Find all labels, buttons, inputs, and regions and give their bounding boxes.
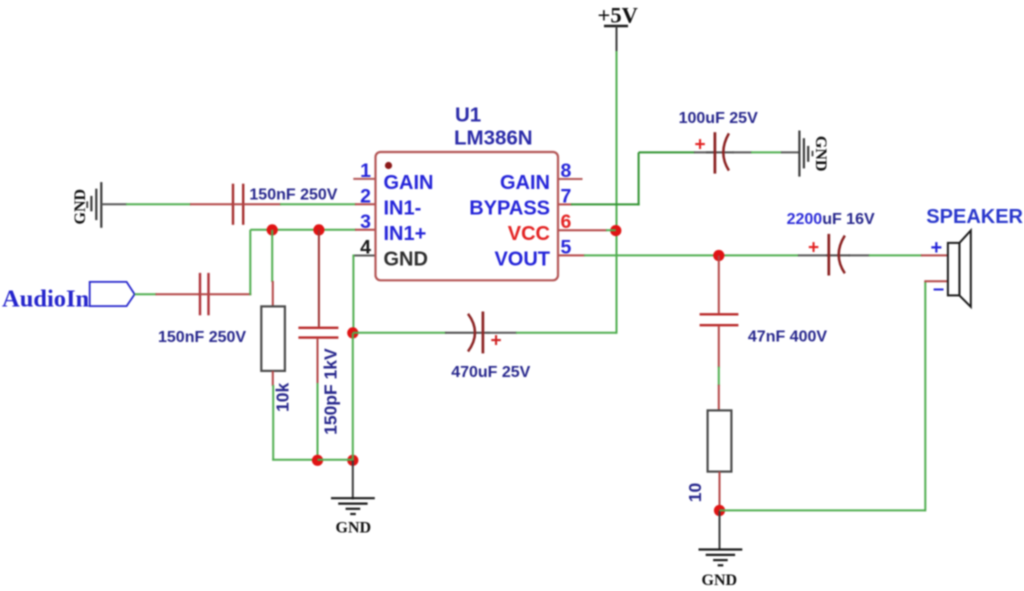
svg-text:6: 6 xyxy=(561,211,572,233)
svg-text:IN1+: IN1+ xyxy=(384,223,427,245)
wire: pin5 VOUT to speaker xyxy=(558,254,948,256)
wire: C 150nF bottom to pin3 node xyxy=(198,230,251,295)
svg-text:4: 4 xyxy=(360,237,371,259)
svg-text:GND: GND xyxy=(812,136,829,172)
wire: GND stem (bottom-left) xyxy=(352,461,354,500)
svg-text:GND: GND xyxy=(336,520,372,537)
capacitor C 470uF 25V (polarized) xyxy=(445,312,502,354)
wire: 470uF to +5V riser xyxy=(486,50,616,334)
svg-text:3: 3 xyxy=(360,211,371,233)
speaker LS1 xyxy=(948,230,971,306)
svg-text:47nF 400V: 47nF 400V xyxy=(748,329,827,346)
svg-text:150nF 250V: 150nF 250V xyxy=(158,329,246,346)
wire: 470uF row from pin4 node xyxy=(353,332,446,334)
wire: GND to C 150nF (pin2 net) xyxy=(101,203,232,205)
wire: ground node to GND stem (bottom-right) xyxy=(719,511,721,550)
wire: R 10k to ground row xyxy=(272,371,318,461)
svg-text:10k: 10k xyxy=(273,383,293,412)
pin 1 stub xyxy=(353,178,375,180)
svg-text:1: 1 xyxy=(360,160,371,182)
svg-text:2200uF 16V: 2200uF 16V xyxy=(787,211,875,228)
capacitor C 2200uF 16V (polarized) xyxy=(808,234,850,276)
capacitor C 100uF 25V (polarized) xyxy=(695,132,735,173)
resistor R 10k xyxy=(261,306,285,371)
node: junction dot R10/speaker return xyxy=(714,505,725,516)
wire: pin6 VCC to +5V riser xyxy=(558,229,616,231)
node: junction dot pin6/+5V xyxy=(610,225,621,236)
ground (bottom-left) xyxy=(331,498,375,514)
svg-text:BYPASS: BYPASS xyxy=(469,197,550,219)
svg-text:2: 2 xyxy=(360,185,371,207)
node: junction dot ground row / GND stem xyxy=(347,455,358,466)
svg-text:LM386N: LM386N xyxy=(454,126,533,149)
svg-text:5: 5 xyxy=(561,236,572,258)
svg-text:–: – xyxy=(933,278,944,300)
wire: C 150nF to U1 pin 2 xyxy=(231,203,376,205)
svg-text:+: + xyxy=(808,238,819,259)
svg-text:150pF 1kV: 150pF 1kV xyxy=(321,348,341,435)
wire: pin7 BYPASS to 100uF xyxy=(558,152,714,205)
ground (right, rotated flag near 100uF) xyxy=(799,131,812,177)
power +5V bar symbol xyxy=(604,26,628,51)
capacitor C 47nF 400V xyxy=(700,314,739,325)
capacitor C 150pF 1kV xyxy=(298,328,338,338)
port AudioIn connector xyxy=(90,282,135,306)
svg-text:100uF 25V: 100uF 25V xyxy=(679,110,758,127)
wire: R 10 to ground node xyxy=(719,472,721,511)
node: junction dot pin3/150pF xyxy=(313,224,324,235)
capacitor C 150nF 250V (bottom, AudioIn coupling) xyxy=(200,273,209,315)
node: junction dot pin3/10k xyxy=(267,224,278,235)
svg-text:+: + xyxy=(931,237,943,259)
wire: speaker return (minus) xyxy=(720,281,948,511)
wire: pin4 to vertical ground branch xyxy=(353,255,375,334)
node: junction dot pin4/470uF xyxy=(347,327,358,338)
svg-text:+: + xyxy=(695,135,706,156)
wire: node to R 10k xyxy=(271,230,274,307)
svg-text:GND: GND xyxy=(72,189,89,225)
svg-text:150nF 250V: 150nF 250V xyxy=(249,186,337,203)
wire: 47nF branch down from VOUT node xyxy=(718,256,720,314)
wire: pin3 node down to C 150pF xyxy=(318,230,320,327)
svg-text:10: 10 xyxy=(685,482,705,502)
svg-text:+5V: +5V xyxy=(598,3,638,28)
node: junction dot ground row / 150pF xyxy=(312,455,323,466)
svg-text:IN1-: IN1- xyxy=(384,197,422,219)
wire: 47nF to R 10 xyxy=(718,326,720,410)
svg-text:GAIN: GAIN xyxy=(384,172,434,194)
pin 8 stub xyxy=(558,178,583,180)
svg-text:AudioIn: AudioIn xyxy=(2,286,90,313)
op-amp U1 body xyxy=(376,152,559,280)
svg-text:GAIN: GAIN xyxy=(500,172,550,194)
svg-text:SPEAKER: SPEAKER xyxy=(926,206,1023,228)
svg-text:7: 7 xyxy=(561,185,572,207)
wire: pin3 row xyxy=(250,229,375,231)
svg-text:GND: GND xyxy=(702,572,738,589)
svg-text:8: 8 xyxy=(561,160,572,182)
svg-text:VCC: VCC xyxy=(508,223,550,245)
svg-text:VOUT: VOUT xyxy=(494,249,550,271)
wire: AudioIn to C 150nF (bottom) xyxy=(135,293,201,295)
capacitor C 150nF 250V (top) xyxy=(233,184,243,225)
ground (left, rotated flag near pin 2) xyxy=(87,182,101,228)
ground (bottom-right) xyxy=(699,550,743,566)
wire: 100uF to GND (right) xyxy=(732,151,799,153)
wire: ground row segment xyxy=(318,459,353,461)
resistor R 10 xyxy=(708,410,732,471)
node: junction dot VOUT/47nF xyxy=(713,250,724,261)
svg-text:470uF 25V: 470uF 25V xyxy=(451,364,530,381)
wire: junction down to ground row xyxy=(352,333,354,461)
U1 pin-1 marker dot xyxy=(385,162,392,169)
svg-text:GND: GND xyxy=(384,249,428,271)
svg-text:U1: U1 xyxy=(455,104,481,127)
wire: C 150pF to ground row xyxy=(317,339,319,461)
